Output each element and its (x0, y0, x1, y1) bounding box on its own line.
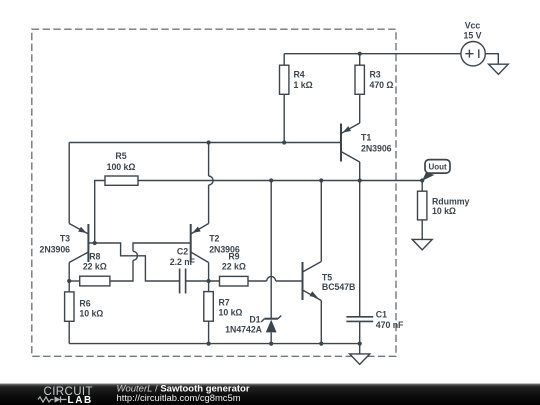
wire: R7 bottom to bottom rail (208, 321, 210, 343)
svg-text:Vcc: Vcc (465, 21, 481, 31)
svg-text:T1: T1 (361, 133, 371, 143)
svg-text:R6: R6 (79, 298, 90, 308)
svg-text:R3: R3 (370, 70, 381, 80)
svg-text:15 V: 15 V (464, 30, 482, 40)
resistor R8 22k (80, 276, 110, 286)
wire: Vcc to ground (485, 54, 498, 64)
wire: R4 top lead (283, 54, 285, 65)
svg-text:D1: D1 (249, 315, 260, 325)
wire: T5 collector up to rail2 (320, 181, 322, 262)
svg-text:470 nF: 470 nF (376, 320, 404, 330)
wire: output rail R5 to Uout (138, 180, 422, 182)
wire: C1 top lead from rail2 (359, 181, 361, 317)
resistor Rdummy 10k (418, 191, 427, 220)
ground (Rdummy) (412, 239, 432, 250)
svg-text:R7: R7 (219, 298, 230, 308)
svg-text:2N3906: 2N3906 (39, 245, 70, 255)
svg-text:C2: C2 (177, 246, 188, 256)
svg-text:10 kΩ: 10 kΩ (432, 206, 456, 216)
wire: R9 right lead with hop over D1 wire, to T5 base (248, 277, 303, 282)
wire: R6 bottom to bottom rail (68, 321, 70, 343)
svg-text:R8: R8 (89, 252, 100, 262)
wire: R5 left lead down to T3 base (95, 181, 105, 244)
transistor T5 BC547B (302, 262, 304, 300)
svg-text:Rdummy: Rdummy (432, 196, 469, 206)
wire: T2 base left, down with hop, to R8 right lead (110, 243, 191, 281)
wire: C1 bottom lead (359, 321, 361, 343)
wire: R3 top lead (359, 54, 361, 65)
svg-text:22 kΩ: 22 kΩ (83, 262, 107, 272)
svg-text:22 kΩ: 22 kΩ (222, 262, 246, 272)
svg-text:LAB: LAB (68, 395, 93, 405)
diode D1 1N4742A zener (264, 318, 278, 320)
resistor R3 470 (355, 65, 364, 94)
wire: bottom rail (69, 343, 360, 345)
wire: T5 emitter down to bottom rail (320, 301, 322, 344)
transistor T2 2N3906 (190, 224, 192, 262)
resistor R4 1k (280, 65, 289, 94)
wire: Rdummy top lead (421, 181, 423, 192)
resistor R9 22k (220, 276, 249, 286)
capacitor C2 2.2nF (180, 269, 186, 294)
wire: T3 emitter up to rail1 (68, 143, 70, 224)
wire: R4 bottom lead to rail1 (283, 94, 285, 142)
wire: T3 base right, down, to C2 left plate (88, 243, 179, 281)
wire: T2 collector down to R7 junction (208, 263, 210, 292)
svg-text:1N4742A: 1N4742A (225, 324, 263, 334)
resistor R5 100k (105, 176, 138, 185)
transistor T1 2N3906 (340, 124, 342, 162)
svg-text:100 kΩ: 100 kΩ (107, 162, 136, 172)
svg-text:R9: R9 (228, 252, 239, 262)
svg-text:10 kΩ: 10 kΩ (219, 308, 243, 318)
wire: T2 emitter up to rail1 with hop over rail2 (209, 143, 214, 224)
svg-text:10 kΩ: 10 kΩ (79, 308, 103, 318)
ground (main) (350, 354, 370, 365)
voltage source Vcc 15V (461, 42, 485, 66)
wire: stub to ground (359, 344, 361, 354)
node: R3 top junction (358, 52, 362, 56)
svg-text:C1: C1 (376, 309, 387, 319)
capacitor C1 470nF (346, 317, 373, 322)
svg-text:T5: T5 (322, 272, 332, 282)
resistor R6 10k (65, 292, 74, 321)
wire: T3 collector down to R8/R6 junction (68, 263, 70, 292)
dashed enclosure border (32, 29, 396, 356)
wire: D1 top lead from rail2 (270, 181, 272, 319)
svg-text:Uout: Uout (428, 163, 447, 172)
resistor R7 10k (204, 292, 214, 322)
svg-text:T3: T3 (60, 234, 70, 244)
svg-text:T2: T2 (209, 234, 219, 244)
svg-text:1 kΩ: 1 kΩ (294, 80, 313, 90)
svg-text:2N3906: 2N3906 (361, 143, 392, 153)
wire: R8 left lead (69, 280, 80, 282)
svg-text:470 Ω: 470 Ω (370, 80, 394, 90)
wire: rail T3 emitter / T2 emitter / R4 / T1 base (69, 142, 341, 144)
svg-text:R5: R5 (115, 151, 126, 161)
svg-text:2.2 nF: 2.2 nF (170, 257, 196, 267)
ground (Vcc) (489, 64, 509, 74)
wire: top supply rail R4/R3 to Vcc (284, 53, 461, 55)
wire: C2 right plate to junction (186, 280, 220, 282)
wire: R3 bottom lead to T1 emitter (359, 94, 361, 123)
node Uout flag (422, 173, 434, 181)
wire: Rdummy bottom lead (421, 220, 423, 240)
wire: D1 bottom lead (270, 332, 272, 343)
svg-text:R4: R4 (294, 70, 305, 80)
wire: T1 collector down to out rail (359, 162, 361, 181)
svg-text:BC547B: BC547B (322, 282, 355, 292)
svg-text:http://circuitlab.com/cg8mc5m: http://circuitlab.com/cg8mc5m (117, 392, 241, 403)
transistor T3 2N3906 (87, 224, 89, 262)
